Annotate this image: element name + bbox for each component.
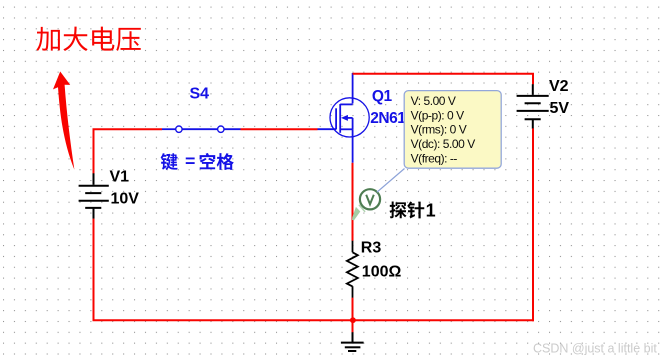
probe 探针1 symbol	[352, 189, 380, 220]
battery V1	[79, 173, 109, 219]
measurement tooltip	[404, 91, 501, 169]
battery V2	[517, 84, 549, 128]
svg-text:100Ω: 100Ω	[362, 264, 402, 281]
wire V1 top-left	[93, 128, 163, 173]
svg-text:1: 1	[426, 201, 436, 221]
leader line probe to tooltip	[377, 169, 405, 193]
svg-text:V: 5.00 V: V: 5.00 V	[411, 94, 456, 108]
svg-text:Q1: Q1	[372, 88, 393, 105]
annotation arrow	[53, 72, 74, 170]
svg-text:V(rms): 0 V: V(rms): 0 V	[411, 123, 467, 137]
svg-text:2N61: 2N61	[370, 110, 406, 127]
ground	[341, 332, 364, 351]
resistor R3	[347, 241, 358, 298]
svg-text:5V: 5V	[550, 100, 570, 117]
label 键 = 空格	[161, 151, 234, 171]
svg-text:V(freq): --: V(freq): --	[411, 152, 458, 166]
svg-text:V2: V2	[549, 78, 569, 95]
junction node	[350, 317, 356, 323]
label 探针1	[390, 201, 436, 221]
wire R3 to junction	[352, 298, 354, 333]
svg-text:R3: R3	[361, 239, 382, 256]
svg-text:V(p-p): 0 V: V(p-p): 0 V	[411, 108, 465, 122]
wire Q1 drain to V2 top	[353, 73, 534, 85]
svg-text:10V: 10V	[111, 191, 140, 208]
annotation text 加大电压	[36, 27, 140, 51]
wire switch to Q1 gate	[241, 128, 318, 130]
wire V1 bottom to ground rail	[93, 219, 535, 322]
svg-text:CSDN @just a little bit: CSDN @just a little bit	[533, 342, 657, 356]
switch S4	[162, 126, 241, 132]
svg-text:S4: S4	[190, 85, 210, 102]
transistor Q1 (2N6 MOSFET)	[318, 73, 370, 163]
wire Q1 source to R3	[352, 163, 354, 241]
wire V2 bottom to ground rail	[532, 128, 534, 321]
svg-text:=: =	[185, 151, 195, 171]
svg-text:V(dc): 5.00 V: V(dc): 5.00 V	[411, 137, 476, 151]
svg-text:V1: V1	[110, 168, 130, 185]
